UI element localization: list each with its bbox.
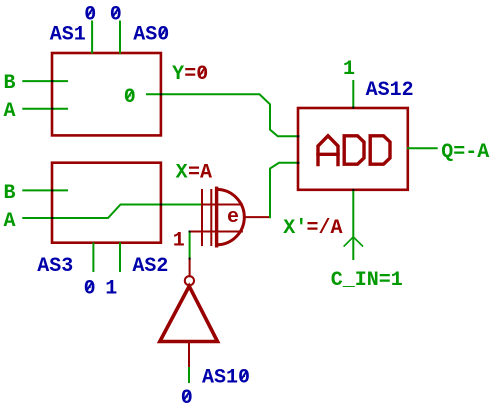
svg-text:AS12: AS12 [366, 79, 414, 102]
svg-text:X': X' [283, 217, 307, 240]
svg-text:1: 1 [105, 278, 117, 301]
svg-text:e: e [227, 206, 239, 229]
svg-text:B: B [4, 182, 16, 205]
wire select AS0 U1 [119, 22, 121, 53]
wire Q output of ADD [408, 147, 437, 149]
svg-text:AS0: AS0 [133, 24, 169, 47]
svg-text:A: A [4, 210, 16, 233]
inverter U4 triangle [160, 286, 218, 341]
wire B input U1 [23, 80, 67, 82]
svg-text:1: 1 [343, 58, 355, 81]
xor gate U3 body [190, 188, 270, 246]
svg-text:B: B [4, 72, 16, 95]
mux U1 (top-left box) [52, 53, 161, 135]
svg-text:0: 0 [84, 4, 96, 27]
svg-text:AS2: AS2 [132, 255, 168, 278]
wire gate lower input from inverter [189, 232, 191, 259]
svg-text:=0: =0 [184, 63, 208, 86]
wire select AS2 U2 [119, 244, 121, 272]
wire Y output U1 to ADD [147, 94, 299, 136]
wire C_IN bottom of ADD [352, 191, 354, 260]
inverter U4 input lead [188, 343, 190, 368]
svg-text:0: 0 [124, 86, 136, 109]
svg-text:Y: Y [172, 63, 184, 86]
svg-text:X: X [176, 162, 188, 185]
svg-text:C_IN=1: C_IN=1 [331, 269, 403, 292]
inverter U4 bubble [185, 276, 194, 285]
svg-text:AS1: AS1 [50, 24, 86, 47]
svg-text:A: A [4, 100, 16, 123]
wire inverter input constant [188, 368, 190, 382]
svg-text:0: 0 [110, 4, 122, 27]
svg-text:=/A: =/A [307, 217, 343, 240]
wire X' gate output to ADD [270, 163, 299, 217]
wire B input U2 [23, 189, 67, 191]
svg-text:=A: =A [188, 162, 212, 185]
arrowhead on C_IN wire [344, 237, 362, 246]
wire A input U2 and X output to gate [23, 205, 202, 219]
svg-text:Q=-A: Q=-A [441, 141, 489, 164]
svg-text:1: 1 [173, 229, 185, 252]
wire A input U1 [23, 108, 67, 110]
wire select AS3 U2 [92, 244, 94, 272]
wire select AS1 U1 [91, 22, 93, 53]
wire carry select AS12 top of ADD [352, 81, 354, 108]
svg-text:0: 0 [84, 278, 96, 301]
adder U5 (ADD box) [298, 108, 408, 190]
label ADD big text [318, 136, 390, 165]
inverter U4 output lead [189, 259, 191, 277]
mux U2 (bottom-left box) [52, 163, 161, 243]
svg-text:AS3: AS3 [37, 255, 73, 278]
